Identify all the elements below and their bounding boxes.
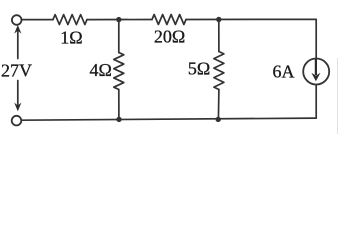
svg-text:20Ω: 20Ω bbox=[154, 27, 185, 47]
svg-text:27V: 27V bbox=[1, 60, 32, 80]
svg-text:6A: 6A bbox=[273, 62, 295, 82]
svg-text:4Ω: 4Ω bbox=[90, 60, 112, 80]
svg-text:1Ω: 1Ω bbox=[60, 28, 82, 48]
svg-text:5Ω: 5Ω bbox=[188, 58, 210, 78]
